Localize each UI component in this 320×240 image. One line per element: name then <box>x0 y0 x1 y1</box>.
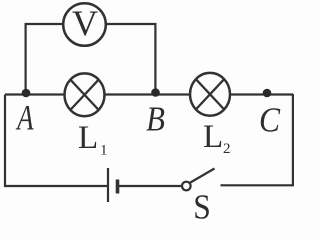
svg-text:2: 2 <box>223 141 231 157</box>
svg-text:C: C <box>259 101 281 140</box>
svg-text:A: A <box>15 98 34 138</box>
svg-text:B: B <box>146 101 165 139</box>
svg-text:L: L <box>78 120 98 156</box>
svg-text:V: V <box>72 3 98 43</box>
svg-text:L: L <box>203 119 223 155</box>
svg-text:S: S <box>193 188 211 219</box>
svg-text:1: 1 <box>100 143 108 159</box>
